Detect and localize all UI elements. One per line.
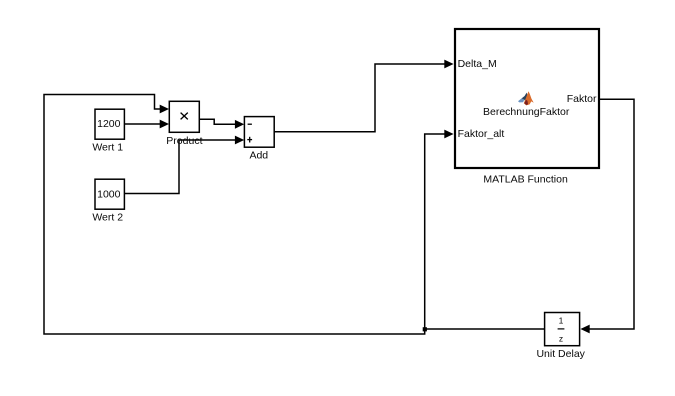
- node junction dot: [423, 327, 427, 331]
- svg-text:Wert 1: Wert 1: [92, 142, 123, 154]
- svg-text:z: z: [559, 334, 563, 344]
- svg-text:1000: 1000: [97, 188, 121, 200]
- constant block Wert 2 (1000): [95, 179, 124, 209]
- svg-text:1200: 1200: [97, 118, 121, 130]
- pin label Delta_M: [458, 58, 497, 70]
- svg-text:Unit Delay: Unit Delay: [536, 348, 585, 360]
- svg-text:Product: Product: [166, 135, 202, 147]
- unit delay block Z1: [545, 313, 580, 346]
- label MATLAB Function: [483, 174, 568, 186]
- svg-text:MATLAB Function: MATLAB Function: [483, 174, 568, 186]
- label Unit Delay: [536, 348, 585, 360]
- label BerechnungFaktor: [483, 106, 570, 118]
- product block P1: [169, 101, 199, 132]
- wire Product output to Add minus input: [199, 119, 244, 128]
- pin label Faktor_alt: [458, 128, 505, 140]
- label Wert 1: [92, 142, 123, 154]
- wire Wert2 to Add plus input: [124, 136, 244, 194]
- constant block Wert 1 (1200): [95, 109, 124, 139]
- MATLAB Function block U1: [455, 29, 599, 168]
- svg-text:Add: Add: [249, 150, 268, 162]
- wire branch: junction left and up to Product input 1: [44, 95, 425, 335]
- label Product: [166, 135, 202, 147]
- label Wert 2: [92, 211, 123, 223]
- svg-text:Wert 2: Wert 2: [92, 211, 123, 223]
- wire branch: junction up to Faktor_alt input: [425, 130, 454, 329]
- wire Faktor output to Unit Delay input: [580, 99, 634, 333]
- MATLAB logo icon: [518, 91, 534, 105]
- wire Wert1 to Product input 2: [124, 120, 169, 129]
- label Add: [249, 150, 268, 162]
- wire Add output to Delta_M input: [274, 60, 453, 132]
- wire feedback: Unit Delay output to junction: [425, 328, 545, 330]
- add block A1: [244, 117, 274, 148]
- pin label Faktor: [567, 93, 597, 105]
- svg-text:Delta_M: Delta_M: [458, 58, 497, 70]
- svg-text:1: 1: [559, 315, 564, 325]
- svg-text:Faktor: Faktor: [567, 93, 597, 105]
- svg-text:BerechnungFaktor: BerechnungFaktor: [483, 106, 570, 118]
- svg-text:Faktor_alt: Faktor_alt: [458, 128, 505, 140]
